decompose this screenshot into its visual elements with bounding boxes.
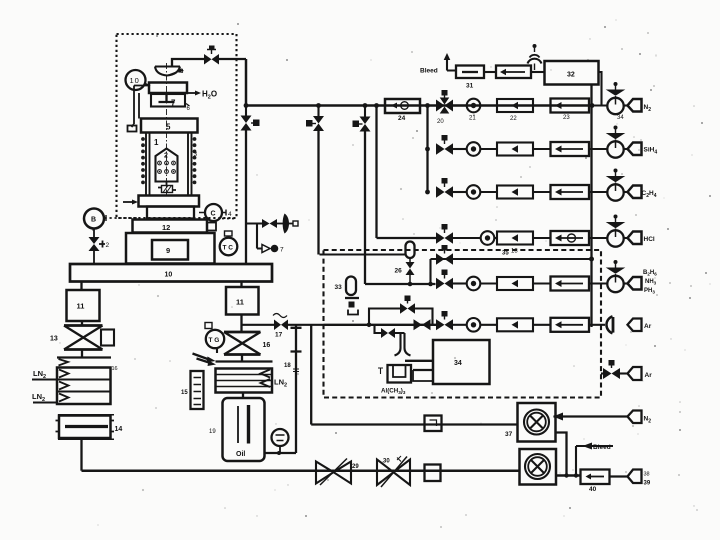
row 6 shutoff and Ar source bbox=[606, 316, 651, 333]
gauge circle 10 bbox=[126, 70, 151, 90]
svg-text:PH3: PH3 bbox=[644, 288, 655, 295]
gauge TC lower bbox=[272, 429, 289, 455]
dashed enclosure TMA system bbox=[324, 250, 602, 398]
svg-text:31: 31 bbox=[466, 83, 474, 90]
left recirculation pipe bbox=[128, 86, 150, 132]
wire filter to regulator SiH4 bbox=[589, 148, 608, 150]
gauge circle TG bbox=[205, 323, 224, 354]
gauge circle B bbox=[84, 209, 104, 229]
wire gauge to flowmeter HCl bbox=[495, 237, 498, 239]
slab 10 baseplate bbox=[70, 264, 272, 282]
bubbler vessel Al(CH3)3 bbox=[378, 365, 411, 395]
wire valve to gauge C2H4 bbox=[453, 191, 467, 193]
svg-text:HCl: HCl bbox=[644, 236, 655, 243]
svg-text:7: 7 bbox=[280, 247, 284, 254]
svg-text:Bleed: Bleed bbox=[593, 444, 611, 451]
valve D3 on dopant feed bbox=[353, 106, 436, 285]
valve D1 on reactor feed bbox=[241, 106, 260, 264]
purifier box 24 bbox=[385, 99, 420, 122]
wire flowmeter to filter SiH4 bbox=[533, 148, 551, 150]
row 7 Ar purge valve and source bbox=[601, 360, 652, 380]
svg-text:C: C bbox=[211, 211, 216, 218]
spray arrows at trap inlet bbox=[193, 354, 217, 367]
svg-text:11: 11 bbox=[236, 298, 244, 307]
wire valve to gauge HCl bbox=[453, 237, 481, 239]
svg-text:35: 35 bbox=[502, 251, 509, 257]
svg-text:Oil: Oil bbox=[236, 451, 245, 458]
svg-text:14: 14 bbox=[115, 426, 123, 433]
diaphragm valve above box 32 inlet bbox=[528, 44, 542, 70]
wire regulator to cylinder HCl bbox=[624, 237, 628, 239]
svg-text:38: 38 bbox=[644, 472, 650, 478]
wire filter to regulator N2 bbox=[589, 104, 608, 106]
purge header from box 32 bbox=[589, 85, 594, 328]
valve 17 with flexible coupling bbox=[242, 314, 324, 339]
scissor jack 16 bbox=[224, 315, 270, 355]
exhaust line to box 40 bbox=[556, 473, 581, 477]
wire regulator to cylinder N2 bbox=[624, 104, 628, 106]
valve D2 on vent line bbox=[306, 106, 324, 255]
filter on HCl line bbox=[551, 231, 590, 245]
pressure sensor 33 bbox=[335, 277, 360, 315]
svg-text:4: 4 bbox=[228, 211, 232, 218]
wire box 32 to N2 regulator bbox=[599, 72, 608, 106]
svg-text:1: 1 bbox=[154, 138, 159, 147]
pressure gauge on C2H4 line bbox=[467, 185, 481, 199]
flow element box on bleed line bbox=[484, 66, 545, 79]
valve on C2H4 line bbox=[436, 178, 453, 198]
wire filter to regulator B2H6/NH3/PH3 bbox=[589, 282, 608, 284]
svg-text:9: 9 bbox=[166, 246, 170, 255]
svg-text:5: 5 bbox=[166, 123, 171, 132]
gauge circle TC bbox=[220, 231, 238, 255]
rotary pump 38 bbox=[520, 449, 557, 485]
box 11 left bbox=[67, 290, 100, 321]
valve 2 below B bbox=[89, 229, 110, 265]
box 11 right bbox=[226, 287, 259, 315]
svg-text:12: 12 bbox=[162, 223, 170, 232]
svg-text:32: 32 bbox=[567, 72, 575, 79]
svg-text:NH3: NH3 bbox=[645, 279, 657, 286]
gas inlet arrow to flange bbox=[123, 200, 138, 205]
svg-text:16: 16 bbox=[112, 366, 118, 372]
wire reactor top line to valve bbox=[172, 59, 246, 67]
svg-text:40: 40 bbox=[589, 486, 597, 493]
bleed branch at exhaust bbox=[576, 443, 613, 476]
cross valve 20 on N2 line bbox=[436, 90, 453, 125]
flowmeter on SiH4 line bbox=[497, 143, 533, 156]
vent branch check valve bbox=[246, 214, 298, 249]
sorption column 15 bbox=[181, 371, 204, 409]
wire filter to regulator HCl bbox=[589, 237, 608, 239]
valve V1 top of reactor bbox=[204, 46, 219, 65]
reactor column walls bbox=[146, 133, 192, 196]
cold trap box 14 bbox=[56, 415, 123, 440]
filter on C2H4 line bbox=[551, 185, 590, 199]
svg-text:18: 18 bbox=[284, 363, 291, 369]
svg-text:Al(CH3)3: Al(CH3)3 bbox=[381, 388, 406, 396]
coupling box on roughing line bbox=[425, 465, 441, 482]
tick 6 bbox=[186, 104, 191, 113]
svg-text:7: 7 bbox=[171, 99, 176, 108]
svg-text:T C: T C bbox=[223, 245, 234, 252]
cylinder regulator on SiH4 line bbox=[606, 126, 626, 158]
svg-text:B: B bbox=[91, 217, 96, 224]
bypass line row 5 bbox=[428, 251, 591, 287]
mixing manifold drop bbox=[425, 106, 430, 195]
valve on B2H6/NH3/PH3 line bbox=[436, 270, 453, 290]
wire valve to gauge B2H6/NH3/PH3 bbox=[453, 282, 467, 284]
gas cylinder B2H6/NH3/PH3 bbox=[628, 270, 658, 295]
bell inlet 8 on reactor top bbox=[155, 67, 184, 76]
main manifold line bbox=[244, 59, 595, 108]
filter 23 on N2 line bbox=[551, 99, 590, 122]
nitrogen ballast line into blower bbox=[553, 413, 628, 421]
svg-text:Ar: Ar bbox=[645, 372, 653, 379]
svg-text:B2H6: B2H6 bbox=[643, 270, 657, 277]
wire flowmeter to filter B2H6/NH3/PH3 bbox=[533, 282, 551, 284]
filter box 40 bbox=[581, 470, 610, 494]
wire gauge to flowmeter C2H4 bbox=[481, 191, 498, 193]
dotted line at B level bbox=[105, 215, 238, 221]
bypass valve row 5 bbox=[436, 245, 453, 265]
pressure gauge on SiH4 line bbox=[467, 142, 481, 156]
box 5 bbox=[141, 119, 198, 133]
base box with box 9 bbox=[126, 233, 215, 264]
svg-text:15: 15 bbox=[181, 390, 188, 396]
bellows 18 to oil pump bbox=[284, 325, 302, 453]
svg-text:16: 16 bbox=[263, 342, 271, 349]
svg-text:19: 19 bbox=[209, 429, 216, 435]
susceptor 2 bbox=[156, 149, 178, 182]
gas cylinder C2H4 bbox=[628, 186, 657, 200]
platform 12 bbox=[133, 220, 217, 233]
chamber box 7 with thermocouple bbox=[151, 94, 185, 108]
row 6 carrier line valves bbox=[414, 311, 454, 330]
svg-text:29: 29 bbox=[352, 464, 359, 470]
inlet line to blower 37 bbox=[311, 423, 517, 425]
dotted enclosure around reactor bbox=[117, 34, 237, 218]
heater coil dots right bbox=[193, 137, 197, 184]
LN2 supply lines and labels bbox=[32, 369, 57, 403]
svg-text:3: 3 bbox=[194, 151, 198, 158]
gas source N2 ballast bbox=[628, 411, 652, 425]
wire gauge to flowmeter B2H6/NH3/PH3 bbox=[481, 282, 498, 284]
svg-text:10: 10 bbox=[165, 272, 173, 279]
svg-text:13: 13 bbox=[50, 336, 58, 343]
valve on SiH4 line bbox=[436, 135, 453, 155]
svg-text:Ar: Ar bbox=[644, 323, 652, 330]
wire gauge to flowmeter SiH4 bbox=[481, 148, 498, 150]
flowmeter on C2H4 line bbox=[497, 186, 533, 199]
row 6 flow components bbox=[453, 318, 605, 332]
wire flowmeter to filter N2 bbox=[533, 104, 551, 106]
lower flange bbox=[139, 196, 200, 207]
restrictor box 31 bbox=[456, 66, 484, 90]
svg-text:34: 34 bbox=[454, 360, 462, 367]
oil pump discharge line bbox=[265, 452, 297, 454]
wire gauge to flowmeter N2 bbox=[481, 104, 498, 106]
H2O outlet arrow bbox=[187, 90, 217, 101]
coupling box 36 on blower inlet bbox=[425, 416, 442, 432]
wire flowmeter to filter C2H4 bbox=[533, 191, 551, 193]
interpump connection bbox=[556, 433, 567, 476]
LN2 heat exchanger left bbox=[57, 350, 118, 405]
cylinder regulator on HCl line bbox=[606, 215, 626, 247]
bleed vent line top bbox=[420, 53, 456, 75]
cylinder regulator on B2H6/NH3/PH3 line bbox=[606, 260, 626, 292]
gas cylinder N2 bbox=[628, 99, 652, 113]
svg-text:30: 30 bbox=[383, 459, 390, 465]
wire flowmeter to filter HCl bbox=[533, 237, 551, 239]
wire filter to regulator C2H4 bbox=[589, 191, 608, 193]
exhaust outlet 39 bbox=[610, 470, 651, 487]
valve on HCl line bbox=[436, 224, 453, 244]
svg-text:Bleed: Bleed bbox=[420, 68, 438, 75]
svg-text:20: 20 bbox=[437, 119, 444, 125]
LN2 trap middle bbox=[216, 355, 288, 393]
cylinder regulator 34 on N2 line bbox=[606, 82, 626, 121]
wire regulator to cylinder B2H6/NH3/PH3 bbox=[624, 282, 628, 284]
svg-text:39: 39 bbox=[644, 481, 651, 487]
wire regulator to cylinder C2H4 bbox=[624, 191, 628, 193]
reservoir box 34 bbox=[433, 340, 490, 384]
manifold tank box 32 bbox=[545, 61, 599, 85]
wire slab to box 11 right bbox=[240, 282, 242, 288]
junction to mechanical pumps line bbox=[310, 325, 312, 425]
roots blower 37 bbox=[505, 403, 556, 442]
pressure gauge 21 on N2 line bbox=[467, 99, 481, 122]
label 1 bbox=[154, 138, 159, 147]
top flange bbox=[149, 83, 187, 94]
flowmeter 22 on N2 line bbox=[497, 99, 533, 122]
bubbler feed valve and dip tube bbox=[375, 325, 411, 356]
svg-text:T G: T G bbox=[209, 337, 220, 344]
foreline through dashed box bbox=[324, 323, 437, 328]
svg-text:24: 24 bbox=[398, 115, 406, 122]
heater coil dots left bbox=[141, 137, 145, 184]
valve 30 bbox=[377, 456, 410, 487]
valve 29 bbox=[316, 459, 359, 486]
flowmeter on B2H6/NH3/PH3 line bbox=[497, 277, 533, 290]
svg-text:21: 21 bbox=[469, 116, 476, 122]
svg-text:22: 22 bbox=[510, 116, 517, 122]
wire slab to box 11 left bbox=[80, 282, 82, 291]
svg-text:2: 2 bbox=[164, 153, 168, 160]
gas cylinder SiH4 bbox=[628, 143, 658, 156]
svg-text:11: 11 bbox=[77, 302, 85, 311]
roughing line from box 14 to pumps bbox=[82, 439, 521, 470]
HCl feed drop line bbox=[377, 106, 437, 239]
svg-text:17: 17 bbox=[275, 332, 283, 339]
wire valve to gauge SiH4 bbox=[453, 148, 467, 150]
pressure gauge on HCl line bbox=[481, 231, 495, 245]
flowmeter on HCl line bbox=[497, 232, 533, 255]
wire valve to gauge N2 bbox=[453, 104, 467, 106]
surge capsule 26 bbox=[320, 242, 415, 287]
svg-text:34: 34 bbox=[617, 115, 624, 121]
filter on SiH4 line bbox=[551, 142, 590, 156]
pedestal bbox=[147, 207, 194, 219]
gas cylinder HCl bbox=[628, 232, 655, 245]
filter on B2H6/NH3/PH3 line bbox=[551, 277, 590, 291]
label 3 bbox=[194, 151, 198, 158]
TMA bypass loop bbox=[369, 296, 433, 325]
wire regulator to cylinder SiH4 bbox=[624, 148, 628, 150]
svg-text:10: 10 bbox=[130, 76, 140, 85]
scissor jack 13 bbox=[50, 321, 114, 350]
bubbler outlet pipes bbox=[405, 361, 433, 381]
svg-text:23: 23 bbox=[563, 115, 570, 121]
pressure gauge on B2H6/NH3/PH3 line bbox=[467, 277, 481, 291]
gauge circle C bbox=[199, 204, 232, 221]
svg-text:26: 26 bbox=[395, 268, 403, 275]
centerline of reactor (dash-dot) bbox=[166, 63, 168, 196]
relief valve 7 bbox=[262, 245, 284, 254]
cylinder regulator on C2H4 line bbox=[606, 169, 626, 201]
svg-text:37: 37 bbox=[505, 431, 513, 438]
svg-text:2: 2 bbox=[106, 242, 110, 249]
susceptor shaft and hatched mount bbox=[158, 182, 176, 193]
svg-text:33: 33 bbox=[335, 284, 343, 291]
oil diffusion pump 19 bbox=[209, 393, 265, 462]
